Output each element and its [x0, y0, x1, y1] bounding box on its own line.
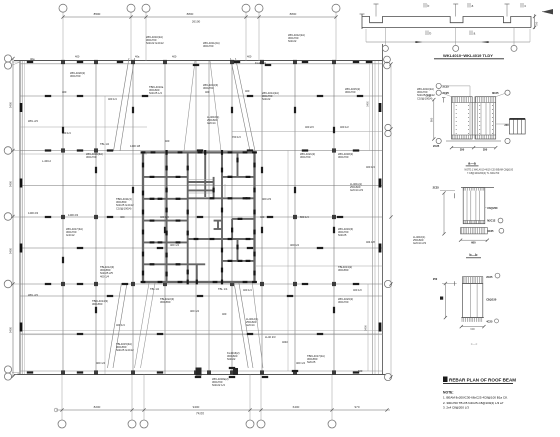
svg-text:400 1/4: 400 1/4 [100, 274, 109, 278]
svg-text:5400: 5400 [9, 180, 13, 187]
svg-text:N2C25: N2C25 [307, 360, 316, 364]
svg-text:8200: 8200 [94, 405, 101, 409]
svg-text:G2C14: G2C14 [207, 121, 216, 125]
svg-text:400: 400 [75, 55, 80, 59]
svg-text:800 1/4: 800 1/4 [300, 215, 309, 219]
svg-text:1400 2/3: 1400 2/3 [68, 213, 79, 217]
svg-text:1400 1/8: 1400 1/8 [130, 144, 141, 148]
svg-text:700: 700 [535, 21, 539, 26]
section c-c top comb [462, 277, 482, 284]
core interior horizontal walls [143, 176, 188, 178]
section b-b bottom comb [463, 221, 465, 224]
beam elevation slope flag [542, 9, 553, 14]
svg-text:5400: 5400 [367, 101, 370, 107]
svg-text:a—a: a—a [468, 161, 477, 165]
beam elevation dimension line [366, 41, 530, 43]
diagonal ramp line lower-left outer pair [113, 283, 127, 368]
grid bubbles top row with leaders [62, 12, 64, 61]
svg-text:400 1/4: 400 1/4 [108, 97, 117, 101]
svg-text:400: 400 [222, 312, 227, 316]
svg-text:NOTE:1.WKL4010-4019 C30 BEAM C: NOTE:1.WKL4010-4019 C30 BEAM C8@100 [465, 168, 514, 171]
svg-text:700 1/3: 700 1/3 [232, 135, 241, 139]
svg-text:G4C12: G4C12 [66, 233, 75, 237]
svg-text:400 1/4: 400 1/4 [190, 309, 199, 313]
svg-text:N4C22: N4C22 [227, 357, 236, 361]
svg-text:400: 400 [245, 89, 250, 93]
section a-a panel bar lines [453, 103, 455, 135]
svg-text:TBL 1/4: TBL 1/4 [100, 142, 110, 146]
svg-text:6400: 6400 [293, 405, 300, 409]
svg-text:350: 350 [483, 148, 488, 152]
grid bubbles right column [384, 56, 391, 63]
svg-text:1400 2/3: 1400 2/3 [28, 211, 39, 215]
svg-text:N4C22 G4C12: N4C22 G4C12 [146, 41, 164, 45]
svg-text:G2C14 2/3: G2C14 2/3 [350, 188, 364, 192]
beam elevation section cut lines [375, 4, 377, 17]
svg-text:9400: 9400 [193, 405, 200, 409]
section a-a bottom hatch comb [451, 135, 453, 139]
svg-text:400: 400 [172, 55, 177, 59]
svg-text:NOTE:: NOTE: [443, 391, 454, 395]
svg-text:400 1/4: 400 1/4 [366, 165, 375, 169]
left dimension line [12, 58, 14, 377]
svg-text:TBL 1/4: TBL 1/4 [150, 287, 160, 291]
svg-text:C8@150: C8@150 [486, 297, 497, 301]
section b-b panel bars [466, 191, 468, 224]
svg-text:240: 240 [504, 124, 509, 127]
svg-text:400 2/3: 400 2/3 [305, 125, 314, 129]
section b-b footing hatch [461, 228, 488, 234]
svg-text:970: 970 [354, 405, 359, 409]
svg-text:2C25: 2C25 [486, 275, 493, 279]
beam elevation section letters bottom [425, 31, 427, 36]
svg-text:400 1/4: 400 1/4 [62, 131, 71, 135]
svg-text:600: 600 [358, 369, 363, 373]
svg-text:C8@200: C8@200 [487, 206, 498, 210]
svg-text:2C25: 2C25 [433, 144, 440, 148]
section c-c left dimension [444, 284, 446, 318]
svg-text:N4C22: N4C22 [288, 39, 297, 43]
diagonal ramp line upper-left pair [114, 58, 130, 151]
svg-text:C8@: C8@ [426, 94, 432, 97]
svg-text:400: 400 [120, 215, 125, 219]
svg-text:C10@100(4): C10@100(4) [116, 206, 132, 210]
core shear wall outline [143, 152, 255, 282]
svg-text:c—c: c—c [471, 342, 478, 346]
edge wall piers [20, 103, 23, 112]
section a-a bottom dimension [452, 147, 496, 149]
svg-text:300x700: 300x700 [86, 155, 97, 159]
svg-text:350: 350 [460, 148, 465, 152]
svg-text:a: a [474, 32, 476, 36]
svg-text:404 1/8: 404 1/8 [366, 240, 375, 244]
beam elevation profile with notches [362, 17, 531, 28]
svg-text:N4C25 G4C12: N4C25 G4C12 [116, 348, 134, 352]
svg-text:4C25: 4C25 [486, 319, 493, 323]
diagonal ramp line upper-left inner [184, 61, 195, 151]
svg-text:KL40 1/4: KL40 1/4 [255, 61, 266, 65]
svg-text:4C25: 4C25 [487, 229, 494, 233]
beam elevation support circles [384, 28, 386, 46]
svg-text:b—b: b—b [469, 253, 478, 257]
section c-c bottom dimension [461, 326, 484, 328]
svg-text:40a: 40a [135, 55, 140, 59]
beam elevation left support edge [361, 14, 363, 29]
svg-text:7.C8@100/200(4) TL 300x700: 7.C8@100/200(4) TL 300x700 [467, 172, 500, 175]
svg-text:300x700: 300x700 [70, 74, 81, 78]
svg-text:b: b [430, 32, 432, 36]
svg-text:300x700: 300x700 [338, 300, 349, 304]
svg-text:2C25: 2C25 [433, 186, 440, 190]
svg-text:REBAR PLAN OF ROOF BEAM: REBAR PLAN OF ROOF BEAM [449, 378, 516, 383]
svg-text:400: 400 [260, 215, 265, 219]
svg-text:400 1/4: 400 1/4 [243, 288, 252, 292]
svg-text:a: a [472, 4, 474, 8]
svg-text:40a: 40a [30, 57, 35, 61]
svg-text:N4C22: N4C22 [262, 97, 271, 101]
section a-a stirrup dots [455, 104, 458, 107]
svg-text:300x700: 300x700 [203, 86, 214, 90]
svg-text:5400: 5400 [9, 326, 13, 333]
grid bubbles left column with leaders [4, 55, 11, 62]
svg-text:WKL 2/3: WKL 2/3 [28, 119, 38, 123]
grid bubbles bottom row with leaders [61, 375, 63, 421]
section b-b top line [461, 187, 494, 189]
svg-text:8800: 8800 [187, 12, 194, 16]
svg-text:5400: 5400 [9, 247, 13, 254]
interior dimension line right bay [367, 284, 369, 371]
diagonal ramp line lower-right inner [252, 281, 263, 368]
svg-text:600: 600 [470, 327, 475, 331]
svg-text:400 2/3: 400 2/3 [262, 197, 271, 201]
svg-text:LL40 2/3: LL40 2/3 [265, 335, 276, 339]
top dimension line [63, 16, 336, 18]
right edge rotated dimension text [369, 64, 371, 151]
horizontal beam grid lines [20, 95, 383, 97]
svg-text:8C25: 8C25 [492, 91, 499, 95]
svg-text:300x700: 300x700 [300, 155, 311, 159]
svg-text:400 1/4: 400 1/4 [170, 243, 179, 247]
svg-text:8800: 8800 [290, 12, 297, 16]
svg-text:400 1/4: 400 1/4 [96, 361, 105, 365]
section c-c panel [462, 284, 482, 318]
svg-text:300x700: 300x700 [345, 90, 356, 94]
plan outer edge walls [19, 61, 21, 375]
diagonal ramp line upper-right pair [231, 58, 251, 151]
svg-text:400: 400 [205, 90, 210, 94]
svg-text:400: 400 [62, 90, 67, 94]
svg-text:WKL4010~WKL4019 TLDY: WKL4010~WKL4019 TLDY [443, 53, 493, 58]
core interior vertical walls [166, 152, 168, 282]
svg-text:600: 600 [471, 241, 476, 245]
section a-a top leader circles [436, 83, 441, 88]
drawing title with underline [443, 377, 448, 383]
svg-text:400 1/4: 400 1/4 [160, 215, 169, 219]
svg-text:b: b [428, 4, 430, 8]
svg-text:8500: 8500 [94, 12, 101, 16]
svg-text:2. 300x700 TB 2/5 N4C25-C8@100: 2. 300x700 TB 2/5 N4C25-C8@100(4) L/3 a7 [443, 401, 504, 405]
shaft bottom tall piers [196, 368, 202, 376]
svg-text:400 1/0: 400 1/0 [353, 288, 362, 292]
svg-text:400: 400 [165, 139, 170, 143]
section b-b bottom dimension [461, 239, 488, 241]
section a-a left panel [452, 97, 473, 139]
section a-a rebar hook [443, 98, 445, 103]
svg-text:5400: 5400 [364, 325, 368, 331]
svg-text:26100: 26100 [192, 20, 201, 24]
svg-text:400 1/2: 400 1/2 [340, 125, 349, 129]
bottom dimension line [56, 409, 390, 411]
svg-text:4040: 4040 [282, 340, 288, 344]
section a-a bottom edge line and leaders [446, 140, 501, 142]
svg-text:300x700: 300x700 [338, 155, 349, 159]
right dimension line [390, 64, 392, 377]
vertical beam grid lines [62, 61, 64, 375]
svg-text:G2C14: G2C14 [246, 323, 255, 327]
beam elevation bottom line [362, 27, 531, 29]
svg-text:N4C25: N4C25 [338, 233, 347, 237]
diagonal ramp line upper-right inner [210, 61, 221, 151]
core wall pier reinforcement dashes [142, 163, 144, 168]
svg-text:74.00: 74.00 [196, 411, 204, 415]
svg-text:400 1/4: 400 1/4 [296, 361, 305, 365]
beam elevation right dimension [534, 14, 536, 29]
svg-text:300x650: 300x650 [160, 300, 171, 304]
svg-text:1. BEAM 8x200/C30-68xC25 4C8@1: 1. BEAM 8x200/C30-68xC25 4C8@100 B1a C8. [443, 396, 508, 400]
svg-text:900: 900 [429, 117, 433, 122]
svg-text:300x700: 300x700 [203, 44, 214, 48]
section c-c bottom comb [461, 317, 484, 319]
section b-b panel [463, 188, 485, 224]
svg-text:G2C14 2/3: G2C14 2/3 [413, 241, 427, 245]
section a-a top hatch comb [451, 97, 453, 103]
section b-b left dimension [443, 193, 445, 234]
svg-text:2C25: 2C25 [443, 84, 450, 88]
diagonal ramp line lower-right pair [234, 281, 248, 368]
svg-text:250: 250 [433, 277, 438, 281]
svg-text:L-400-2: L-400-2 [42, 159, 51, 163]
svg-text:300x650: 300x650 [338, 268, 349, 272]
diagonal ramp line lower-left inner pair [141, 283, 156, 368]
double bubble slanted leaders [11, 62, 20, 66]
svg-text:3. 2x4 C8@200 L/3: 3. 2x4 C8@200 L/3 [443, 406, 469, 410]
svg-text:TBL 1/4: TBL 1/4 [218, 287, 228, 291]
svg-text:400 1/4: 400 1/4 [116, 323, 125, 327]
svg-text:N4C22 1/4: N4C22 1/4 [212, 383, 225, 387]
beam-end dark marks [132, 107, 134, 113]
svg-text:300x650: 300x650 [92, 302, 103, 306]
core stair treads [189, 179, 213, 181]
svg-text:WKL 2/3: WKL 2/3 [28, 293, 38, 297]
beam elevation section letters top [423, 3, 425, 8]
section a-a embedded box detail [509, 119, 525, 134]
columns on grid intersections [61, 60, 64, 64]
section a-a right panel [475, 97, 496, 139]
svg-text:N2C12: N2C12 [487, 219, 496, 223]
svg-text:400 1/4: 400 1/4 [290, 243, 299, 247]
svg-text:N4C25 L/4: N4C25 L/4 [149, 91, 162, 95]
svg-text:5400: 5400 [9, 101, 13, 108]
section a-a left dimension [433, 100, 435, 139]
svg-text:400: 400 [247, 55, 252, 59]
